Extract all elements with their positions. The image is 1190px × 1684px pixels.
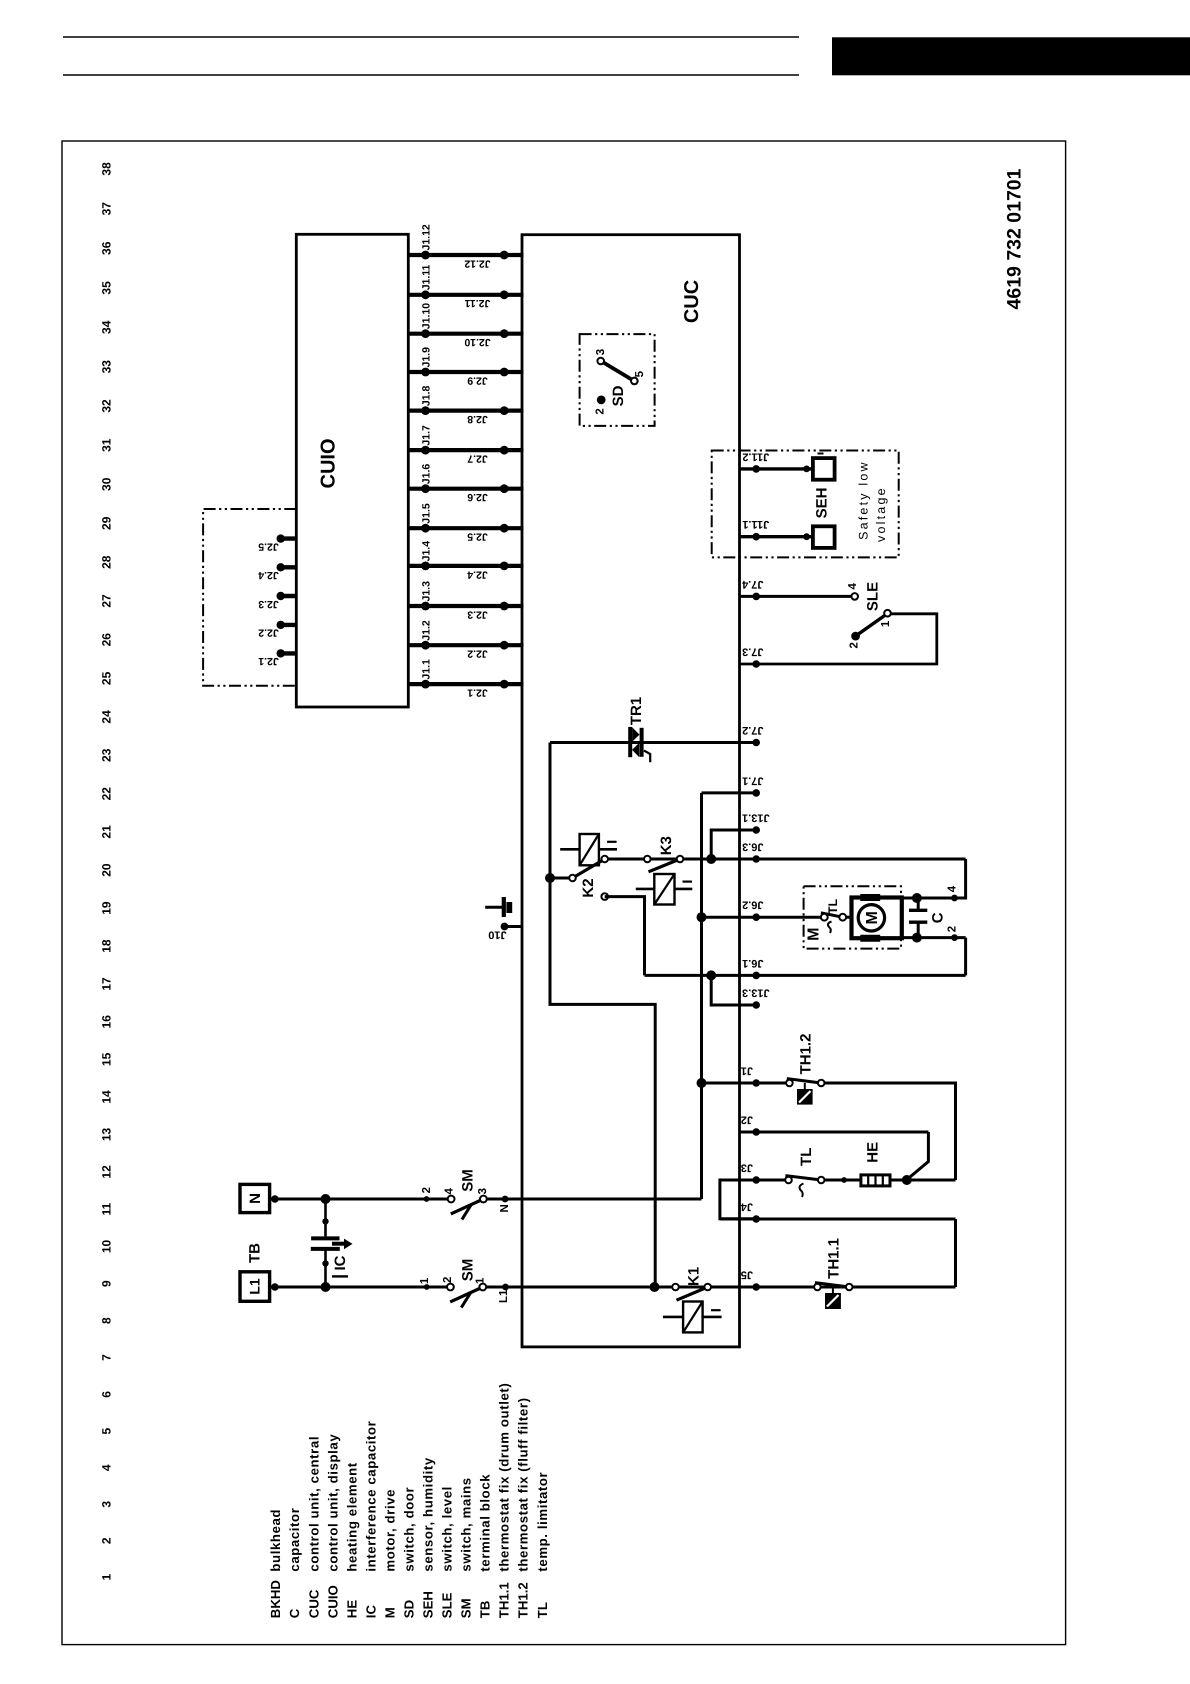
dot J2.9 xyxy=(500,368,509,377)
svg-text:26: 26 xyxy=(99,633,113,647)
svg-text:J2.2: J2.2 xyxy=(467,648,488,660)
svg-text:HE: HE xyxy=(864,1142,881,1163)
dot J2.12 xyxy=(500,251,509,260)
junction dot J6.1/J13.3 xyxy=(706,970,716,980)
dot J1.7 xyxy=(421,446,430,455)
dot J1.6 xyxy=(421,484,430,493)
junction dot K2 common xyxy=(545,873,555,883)
header black bar xyxy=(832,37,1190,75)
SLE contact 1 xyxy=(884,610,891,617)
pin dot J13.1 xyxy=(752,826,760,834)
svg-text:M: M xyxy=(806,928,823,941)
svg-text:J6.3: J6.3 xyxy=(742,841,763,853)
dot J2.11 xyxy=(500,290,509,299)
pin dot J6.3 xyxy=(752,855,760,863)
svg-text:28: 28 xyxy=(99,555,113,569)
junction dot bus/J1 xyxy=(697,1078,707,1088)
svg-text:36: 36 xyxy=(99,241,113,255)
K1 polarity dash xyxy=(711,1309,721,1311)
svg-text:3: 3 xyxy=(477,1188,489,1194)
svg-text:thermostat fix (fluff filter): thermostat fix (fluff filter) xyxy=(516,1397,531,1571)
jumper wire J3 to J4 xyxy=(720,1180,756,1219)
svg-text:4: 4 xyxy=(947,885,959,892)
svg-text:control unit, display: control unit, display xyxy=(325,1434,340,1572)
svg-text:9: 9 xyxy=(99,1280,113,1287)
header rule top xyxy=(63,36,799,38)
svg-text:14: 14 xyxy=(99,1090,113,1104)
svg-text:TH1.1: TH1.1 xyxy=(826,1238,843,1279)
svg-text:32: 32 xyxy=(99,399,113,413)
K1 contact right xyxy=(704,1284,711,1291)
earth bar long xyxy=(502,897,506,917)
svg-text:J6.1: J6.1 xyxy=(742,957,763,969)
junction dot bus/J6.2 xyxy=(697,912,707,922)
svg-text:L1: L1 xyxy=(247,1278,263,1295)
svg-text:3: 3 xyxy=(99,1501,113,1508)
svg-text:J1.9: J1.9 xyxy=(421,347,433,368)
svg-text:J2.3: J2.3 xyxy=(258,598,279,610)
SLE contact dot 2 xyxy=(851,632,860,641)
svg-text:2: 2 xyxy=(595,408,607,414)
ribbon wire J1.3-J2.3 xyxy=(408,604,523,608)
relay K3 coil xyxy=(654,874,674,905)
K3 polarity dash xyxy=(683,880,693,882)
svg-text:J2.7: J2.7 xyxy=(467,453,488,465)
dot J1.8 xyxy=(421,406,430,415)
svg-text:voltage: voltage xyxy=(874,486,888,542)
ribbon wire J1.6-J2.6 xyxy=(408,487,523,491)
svg-text:TB: TB xyxy=(246,1243,263,1263)
svg-text:J2.1: J2.1 xyxy=(258,655,279,667)
svg-text:10: 10 xyxy=(99,1240,113,1254)
svg-text:temp. limitator: temp. limitator xyxy=(535,1472,550,1572)
svg-text:J1: J1 xyxy=(741,1065,753,1077)
svg-text:switch, door: switch, door xyxy=(402,1487,417,1572)
pin dot J3 xyxy=(752,1176,760,1184)
svg-text:J13.3: J13.3 xyxy=(742,987,770,999)
wire J2 xyxy=(740,1131,929,1134)
terminal dot 4 xyxy=(951,895,958,902)
svg-text:29: 29 xyxy=(99,516,113,530)
wire J4 to TH1.1 xyxy=(954,1219,957,1287)
svg-text:TH1.1: TH1.1 xyxy=(497,1582,512,1618)
svg-text:SEH: SEH xyxy=(421,1591,436,1618)
terminal dot J2.3 xyxy=(277,592,285,600)
svg-text:interference capacitor: interference capacitor xyxy=(363,1421,378,1572)
svg-text:35: 35 xyxy=(99,281,113,295)
ribbon wire J1.4-J2.4 xyxy=(408,564,523,568)
terminal dot J2.2 xyxy=(277,621,285,629)
svg-text:J1.4: J1.4 xyxy=(421,541,433,562)
wire to K2 common contact xyxy=(550,877,573,880)
dot J1.1 xyxy=(421,680,430,689)
TL contact left xyxy=(785,1177,792,1184)
svg-text:CUIO: CUIO xyxy=(318,439,340,489)
capacitor C top lead xyxy=(917,898,920,910)
svg-text:15: 15 xyxy=(99,1052,113,1066)
K2 lever xyxy=(573,859,605,878)
svg-text:J2.4: J2.4 xyxy=(467,568,488,580)
SM contact 3 xyxy=(480,1196,487,1203)
svg-text:2: 2 xyxy=(442,1277,454,1283)
svg-text:J2.2: J2.2 xyxy=(258,627,279,639)
svg-text:J1.12: J1.12 xyxy=(421,224,433,250)
K2 upper fixed contact xyxy=(601,856,608,863)
stub wire J2.5 (CUIO) xyxy=(279,536,297,540)
svg-text:J2.4: J2.4 xyxy=(258,569,279,581)
motor terminal bar bottom xyxy=(860,935,880,942)
svg-text:8: 8 xyxy=(99,1317,113,1324)
wire J6.2 to motor TL xyxy=(702,916,821,919)
terminal block TB - N xyxy=(240,1184,270,1212)
svg-text:J2.8: J2.8 xyxy=(467,413,488,425)
motor circle M xyxy=(858,905,884,931)
pin dot J6.2 xyxy=(752,913,760,921)
svg-text:TH1.2: TH1.2 xyxy=(798,1034,815,1075)
wire HE right to TH1.2 node xyxy=(890,1179,956,1182)
TH1.2 contact right xyxy=(818,1080,825,1087)
SLE lever xyxy=(857,615,885,635)
wire J3 to TL xyxy=(740,1179,786,1182)
svg-text:20: 20 xyxy=(99,863,113,877)
svg-text:IC: IC xyxy=(332,1255,349,1270)
svg-text:J1.2: J1.2 xyxy=(421,620,433,641)
dot J1.4 xyxy=(421,562,430,571)
dot at L1 terminal xyxy=(271,1283,279,1291)
header rule bottom xyxy=(63,74,799,76)
svg-text:38: 38 xyxy=(99,162,113,176)
wire J11.1 to SEH xyxy=(740,535,813,538)
svg-text:TR1: TR1 xyxy=(628,697,645,725)
svg-text:TH1.2: TH1.2 xyxy=(516,1582,531,1618)
svg-text:J2.5: J2.5 xyxy=(467,531,488,543)
svg-text:SM: SM xyxy=(459,1598,474,1618)
pin dot J7.3 xyxy=(752,660,760,668)
ribbon wire J1.8-J2.8 xyxy=(408,409,523,413)
capacitor C plate bottom xyxy=(909,921,927,924)
svg-text:thermostat fix (drum outlet): thermostat fix (drum outlet) xyxy=(497,1383,512,1572)
dot J2.10 xyxy=(500,329,509,338)
wire TH1.2 to HE node xyxy=(825,1083,956,1180)
svg-text:C: C xyxy=(287,1608,302,1618)
wire N to SM xyxy=(270,1198,448,1201)
svg-text:31: 31 xyxy=(99,438,113,452)
svg-text:J3: J3 xyxy=(741,1162,753,1174)
dashed box SD (switch door) xyxy=(580,334,655,426)
dot J1.3 xyxy=(421,602,430,611)
svg-text:J1.3: J1.3 xyxy=(421,581,433,602)
SEH electrode square 2 xyxy=(813,526,835,548)
SEH electrode square 1 xyxy=(813,458,835,480)
wire J6.1 xyxy=(645,974,966,977)
svg-text:M: M xyxy=(382,1607,397,1618)
SD contact 5 xyxy=(631,378,638,385)
svg-text:capacitor: capacitor xyxy=(287,1508,302,1572)
dot J2.2 xyxy=(500,641,509,650)
svg-text:BKHD: BKHD xyxy=(268,1580,283,1618)
svg-text:CUC: CUC xyxy=(681,280,703,323)
svg-text:TL: TL xyxy=(826,899,840,915)
svg-text:N: N xyxy=(247,1193,264,1204)
dot J1.9 xyxy=(421,368,430,377)
TH1.2 contact left xyxy=(786,1080,793,1087)
svg-text:4: 4 xyxy=(847,583,859,590)
svg-text:27: 27 xyxy=(99,594,113,608)
motor TL lever xyxy=(821,913,843,917)
svg-text:CUIO: CUIO xyxy=(325,1585,340,1618)
svg-text:J1.6: J1.6 xyxy=(421,464,433,485)
pin dot J2 xyxy=(752,1128,760,1136)
svg-text:7: 7 xyxy=(99,1354,113,1361)
pin dot J11.1 xyxy=(752,533,760,541)
junction dot IC bottom xyxy=(321,1282,331,1292)
K2 common contact xyxy=(569,875,576,882)
dot at N terminal xyxy=(271,1195,279,1203)
svg-text:5: 5 xyxy=(634,370,646,377)
svg-text:J4: J4 xyxy=(740,1201,753,1213)
dot J2.3 xyxy=(500,602,509,611)
svg-text:J2.10: J2.10 xyxy=(464,336,490,348)
svg-text:J2: J2 xyxy=(741,1114,753,1126)
svg-text:J2.1: J2.1 xyxy=(467,687,488,699)
svg-text:4: 4 xyxy=(443,1188,455,1195)
SM actuator tick (L1 pole) xyxy=(461,1293,470,1308)
BKHD mark TH1.2 xyxy=(797,1089,813,1105)
ribbon wire J1.9-J2.9 xyxy=(408,370,523,374)
svg-text:M: M xyxy=(864,911,881,924)
svg-text:33: 33 xyxy=(99,360,113,374)
bus wire N net (J7.1-J6.2-J1-SM) xyxy=(700,793,703,1199)
dot J2.4 xyxy=(500,562,509,571)
SM contact 2 xyxy=(447,1284,454,1291)
TL lever xyxy=(785,1176,821,1180)
wire TL to winding xyxy=(846,916,851,919)
terminal dot J2.5 xyxy=(277,534,285,542)
pin dot J10 xyxy=(501,923,509,931)
IC arrow xyxy=(332,1242,345,1246)
CUIO box xyxy=(296,234,408,707)
svg-text:C: C xyxy=(930,912,947,923)
svg-text:34: 34 xyxy=(99,320,113,334)
svg-text:J1.7: J1.7 xyxy=(421,425,433,446)
svg-text:L1: L1 xyxy=(498,1289,510,1303)
drawing frame xyxy=(62,141,1066,1645)
svg-text:J7.1: J7.1 xyxy=(742,774,763,786)
dot J1.11 xyxy=(421,290,430,299)
svg-text:Safety low: Safety low xyxy=(856,460,870,540)
wire J4 xyxy=(720,1218,956,1221)
dot J1.10 xyxy=(421,329,430,338)
svg-text:SEH: SEH xyxy=(813,488,830,519)
dot J1.5 xyxy=(421,524,430,533)
pin dot J7.1 xyxy=(752,789,760,797)
capacitor C plate top xyxy=(909,909,927,912)
pin dot J11.2 xyxy=(752,465,760,473)
svg-text:J1.8: J1.8 xyxy=(421,386,433,407)
svg-text:J1.11: J1.11 xyxy=(421,264,433,290)
dot wire 1 xyxy=(424,1284,430,1290)
svg-text:SD: SD xyxy=(610,385,627,406)
svg-text:1: 1 xyxy=(880,620,892,627)
svg-text:J1.10: J1.10 xyxy=(421,303,433,329)
TL contact right xyxy=(818,1177,825,1184)
svg-text:SD: SD xyxy=(402,1600,417,1618)
svg-text:23: 23 xyxy=(99,748,113,762)
dashed box M (motor drive) xyxy=(804,886,901,948)
svg-text:terminal block: terminal block xyxy=(478,1474,493,1572)
svg-text:J2.3: J2.3 xyxy=(467,608,488,620)
svg-text:J2.11: J2.11 xyxy=(464,297,490,309)
svg-text:J11.1: J11.1 xyxy=(742,518,769,530)
motor winding box xyxy=(852,898,902,939)
stub wire J2.2 (CUIO) xyxy=(279,623,297,627)
heating element HE xyxy=(861,1175,890,1186)
dot J1.12 xyxy=(421,251,430,260)
relay K1 coil xyxy=(683,1302,703,1333)
terminal dot HE left xyxy=(841,1177,847,1183)
wire J7.1 xyxy=(702,791,757,794)
capacitor C bottom lead xyxy=(917,922,920,937)
SM contact 4 xyxy=(448,1196,455,1203)
wire to motor pin 4 xyxy=(902,859,966,898)
ribbon wire J1.12-J2.12 xyxy=(408,253,523,257)
wire J11.2 to SEH xyxy=(740,467,813,470)
ribbon wire J1.2-J2.2 xyxy=(408,643,523,647)
terminal dot 2 xyxy=(951,934,958,941)
svg-text:J13.1: J13.1 xyxy=(742,812,770,824)
junction dot bus/K1 xyxy=(650,1282,660,1292)
svg-text:2: 2 xyxy=(848,642,860,648)
svg-text:16: 16 xyxy=(99,1015,113,1029)
ribbon wire J1.5-J2.5 xyxy=(408,526,523,530)
SM contact 1 xyxy=(479,1284,486,1291)
wire J2 down to HE node xyxy=(907,1132,928,1180)
wire J13.1 to J6.3 node xyxy=(711,830,756,859)
earth stub wire xyxy=(485,906,502,909)
svg-text:SM: SM xyxy=(459,1259,476,1282)
svg-text:1: 1 xyxy=(99,1574,113,1581)
wire J1 to TH1.2 xyxy=(702,1082,786,1085)
wire J7.2 through TR1 xyxy=(550,741,756,744)
motor TL contact right xyxy=(839,914,846,921)
svg-text:K2: K2 xyxy=(580,878,597,897)
wire J10 xyxy=(502,925,522,928)
svg-text:17: 17 xyxy=(99,977,113,991)
svg-text:bulkhead: bulkhead xyxy=(268,1509,283,1572)
svg-text:12: 12 xyxy=(99,1165,113,1179)
wire L1 - K1 - J5 - TH1.1 xyxy=(486,1286,955,1289)
wire K2 lower contact to J6.1 line xyxy=(605,897,645,976)
svg-text:1: 1 xyxy=(419,1277,431,1284)
svg-text:11: 11 xyxy=(99,1203,113,1216)
wire TL to HE xyxy=(825,1179,861,1182)
svg-text:TL: TL xyxy=(535,1602,550,1618)
svg-text:J6.2: J6.2 xyxy=(742,899,763,911)
pin dot J13.3 xyxy=(752,1001,760,1009)
svg-text:18: 18 xyxy=(99,939,113,953)
svg-text:sensor, humidity: sensor, humidity xyxy=(421,1457,436,1571)
ribbon wire J1.11-J2.11 xyxy=(408,293,523,297)
relay K2 coil xyxy=(580,834,599,865)
ribbon wire J1.1-J2.1 xyxy=(408,682,523,686)
svg-text:6: 6 xyxy=(99,1391,113,1398)
pin dot J7.4 xyxy=(752,593,760,601)
BKHD stub TH1.1 xyxy=(832,1287,834,1293)
wire motor pin 2 node xyxy=(902,936,966,939)
svg-text:TB: TB xyxy=(478,1601,493,1619)
svg-text:motor, drive: motor, drive xyxy=(382,1489,397,1572)
svg-text:30: 30 xyxy=(99,477,113,491)
pin dot J4 xyxy=(752,1215,760,1223)
svg-text:19: 19 xyxy=(99,901,113,915)
dashed box Safety low voltage (SEH) xyxy=(712,451,899,558)
dot J1.2 xyxy=(421,641,430,650)
dot J2.1 xyxy=(500,680,509,689)
polarity dash at SEH xyxy=(818,453,824,455)
svg-text:J5: J5 xyxy=(741,1269,753,1281)
pin dot J5 xyxy=(752,1283,760,1291)
wire L1 to SM xyxy=(270,1286,447,1289)
svg-text:K3: K3 xyxy=(658,836,675,855)
junction dot HE/J2/TH1.2 xyxy=(902,1175,912,1185)
dot J2.6 xyxy=(500,484,509,493)
pin dot J1 xyxy=(752,1079,760,1087)
svg-text:37: 37 xyxy=(99,202,113,216)
svg-text:J2.6: J2.6 xyxy=(467,491,488,503)
SLE contact 4 xyxy=(851,593,858,600)
SD lever xyxy=(603,362,638,383)
svg-text:24: 24 xyxy=(99,710,113,724)
svg-text:control unit, central: control unit, central xyxy=(306,1436,321,1572)
terminal dot J2.4 xyxy=(277,563,285,571)
svg-text:switch, level: switch, level xyxy=(440,1486,455,1572)
svg-text:SLE: SLE xyxy=(864,582,881,611)
wire K2 contact to K3 contacts (J6.3 net) xyxy=(605,858,680,861)
svg-text:N: N xyxy=(499,1204,511,1212)
dot at SEH electrode 1 xyxy=(803,466,810,473)
pin dot J7.2 xyxy=(752,739,760,747)
svg-text:CUC: CUC xyxy=(306,1589,321,1618)
junction dot motor pin 2 node xyxy=(912,933,922,943)
IC label underline xyxy=(332,1275,348,1277)
svg-text:22: 22 xyxy=(99,787,113,801)
SD contact dot 2 xyxy=(597,396,606,405)
stub wire J2.4 (CUIO) xyxy=(279,565,297,569)
svg-text:J7.3: J7.3 xyxy=(742,646,763,658)
svg-text:J7.2: J7.2 xyxy=(742,724,763,736)
svg-text:3: 3 xyxy=(595,349,607,355)
svg-text:J10: J10 xyxy=(488,929,506,941)
TH1.2 lever xyxy=(787,1079,821,1083)
TH1.1 contact left xyxy=(814,1284,821,1291)
dot wire 2 xyxy=(424,1196,430,1202)
K1 contact left xyxy=(672,1284,679,1291)
K3 right contact xyxy=(677,856,684,863)
svg-text:switch, mains: switch, mains xyxy=(459,1477,474,1571)
svg-text:J1.5: J1.5 xyxy=(421,503,433,524)
junction dot motor pin 4 node xyxy=(912,893,922,903)
SM actuator tick (N pole) xyxy=(462,1205,471,1220)
dot N wire at CUC xyxy=(502,1196,509,1203)
BKHD stub TH1.2 xyxy=(804,1083,806,1089)
svg-text:21: 21 xyxy=(99,825,113,839)
svg-text:25: 25 xyxy=(99,671,113,685)
TH1.1 contact right xyxy=(846,1284,853,1291)
junction dot J13.1/J6.3 xyxy=(706,854,716,864)
CUC box xyxy=(522,235,740,1347)
dot at SEH electrode 2 xyxy=(803,533,810,540)
TH1.1 lever xyxy=(815,1283,849,1287)
